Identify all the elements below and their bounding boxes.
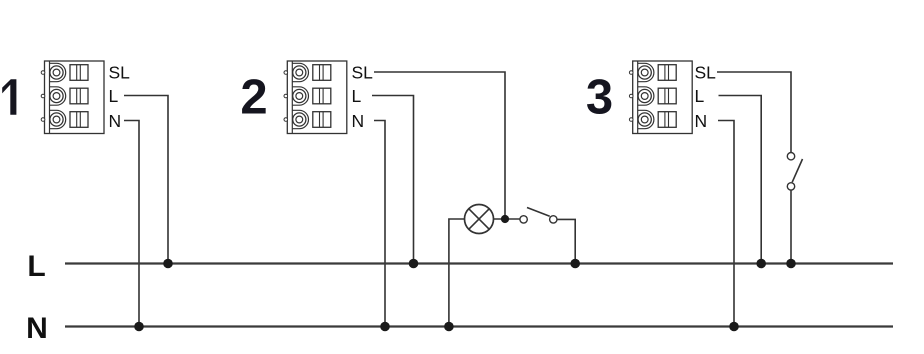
L bus wire [65, 262, 893, 264]
wire block3 N to N-bus [718, 121, 734, 327]
switch S2 lever [527, 208, 550, 217]
switch S3 contact a [787, 153, 794, 160]
svg-text:SL: SL [352, 62, 374, 82]
junction block2 N [380, 322, 390, 332]
svg-text:L: L [352, 86, 362, 106]
terminal block X2 [284, 61, 347, 134]
junction lamp N [444, 322, 454, 332]
wire lamp to switch S2 [494, 218, 520, 220]
switch S2 contact a [520, 216, 527, 223]
junction block3 L [756, 259, 766, 269]
svg-text:2: 2 [240, 71, 267, 125]
junction block1 N [134, 322, 144, 332]
wire block1 L to L-bus [124, 96, 168, 264]
wire switch S2 to L-bus [557, 219, 575, 263]
node lamp/SL junction [501, 215, 509, 223]
lamp E1 [465, 205, 494, 234]
svg-text:N: N [695, 111, 708, 131]
wire block3 L to L-bus [719, 96, 762, 264]
wire block3 SL to switch S3 [717, 72, 791, 153]
svg-text:L: L [27, 250, 45, 283]
wire switch S3 to L-bus [790, 190, 792, 263]
svg-text:3: 3 [586, 71, 613, 125]
wire block1 N to N-bus [124, 121, 139, 327]
driver label 1 [2, 79, 16, 115]
N bus wire [65, 325, 893, 327]
svg-text:N: N [26, 312, 48, 345]
svg-text:SL: SL [109, 62, 131, 82]
svg-text:SL: SL [695, 62, 717, 82]
junction switch S3 L [786, 259, 796, 269]
switch S3 contact b [787, 183, 794, 190]
wire lamp to N-bus [449, 219, 465, 327]
svg-text:N: N [352, 111, 365, 131]
switch S2 contact b [550, 216, 557, 223]
svg-text:L: L [695, 86, 705, 106]
junction block3 N [729, 322, 739, 332]
svg-text:N: N [109, 111, 122, 131]
terminal block X3 [629, 61, 692, 134]
junction switch S2 L [570, 259, 580, 269]
wire block2 N to N-bus [374, 121, 385, 327]
wire block2 L to L-bus [372, 96, 414, 264]
junction block2 L [409, 259, 419, 269]
switch S3 lever [792, 159, 802, 182]
svg-text:L: L [109, 86, 119, 106]
terminal block X1 [41, 61, 104, 134]
junction block1 L [163, 259, 173, 269]
wire block2 SL to lamp node [374, 72, 505, 219]
